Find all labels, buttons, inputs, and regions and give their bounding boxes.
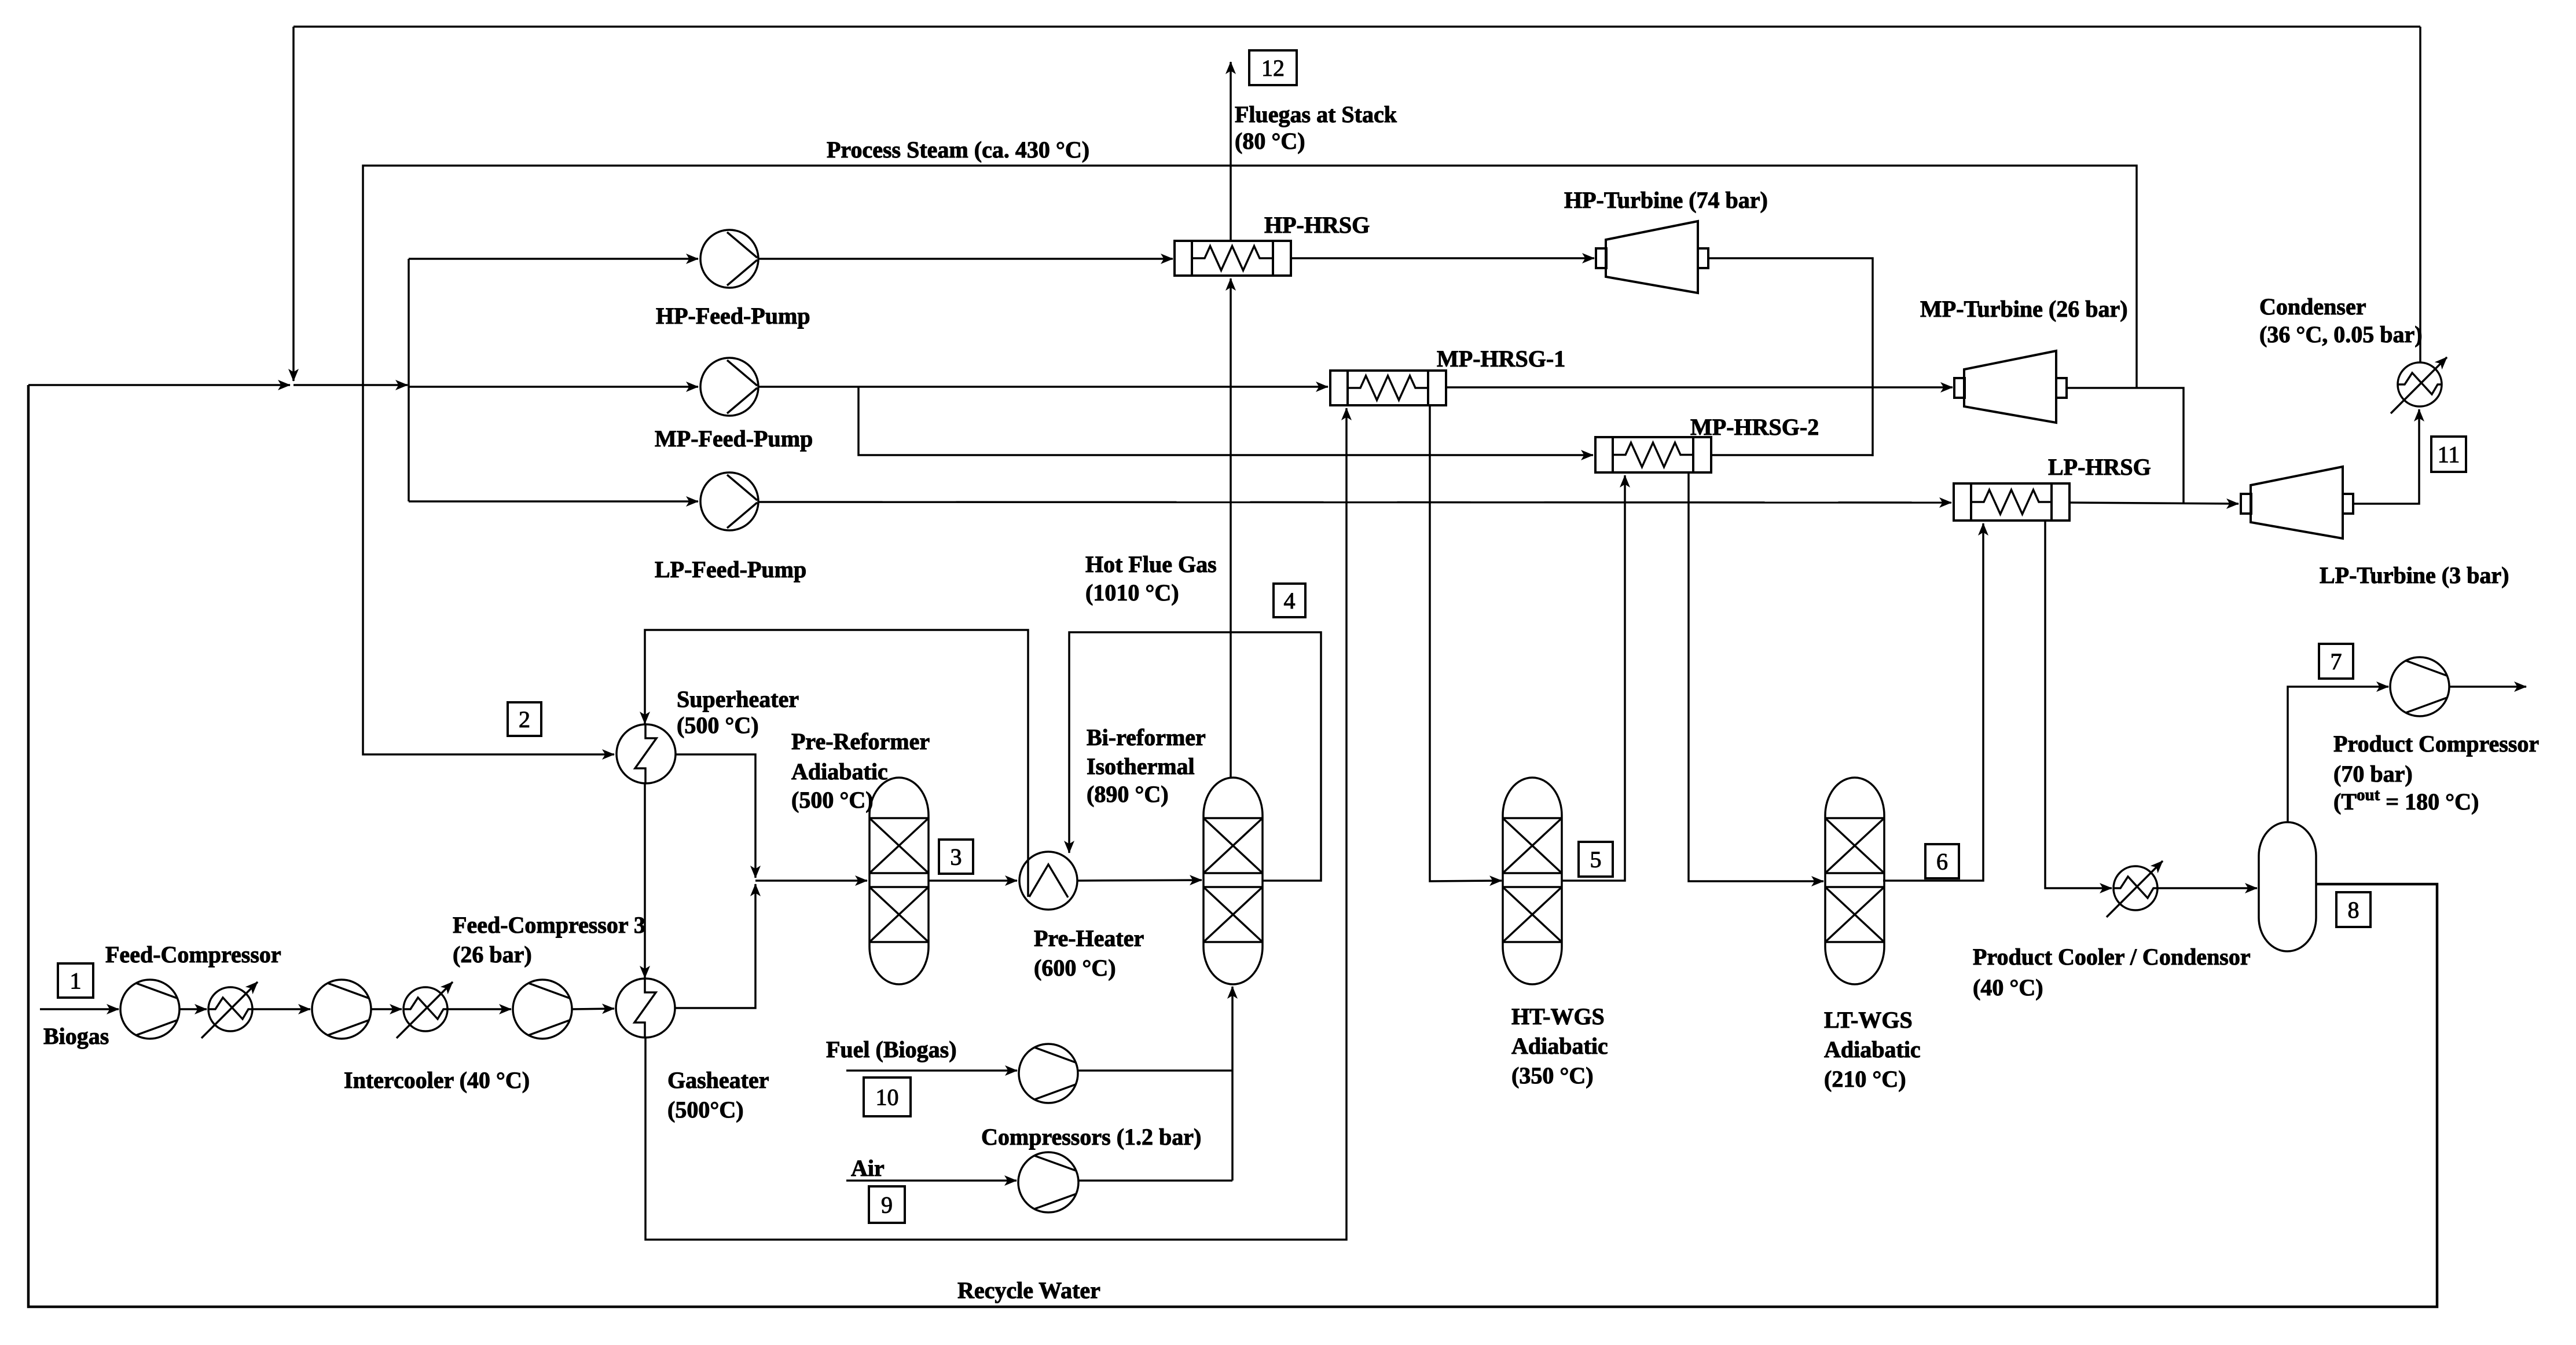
wire LP-HRSG gas out to product cooler bbox=[2045, 521, 2112, 888]
wire MP-HRSG-1 gas out to HT-WGS bbox=[1430, 405, 1502, 881]
wire burner feed riser to Bi-reformer bbox=[1231, 987, 1234, 1181]
node stream 5 bbox=[1579, 842, 1613, 877]
wire intercooler2 to compressor3 bbox=[447, 1008, 511, 1010]
wire mixed feed to Pre-Reformer bbox=[755, 879, 867, 882]
compressor Feed-Compressor-3 bbox=[513, 980, 572, 1039]
wire process steam header bbox=[363, 166, 2137, 754]
wire gasheater outlet riser bbox=[675, 884, 755, 1008]
svg-text:Biogas: Biogas bbox=[43, 1023, 109, 1049]
wire pump manifold vertical bbox=[408, 259, 410, 501]
wire condenser-top riser bbox=[2419, 27, 2421, 362]
wire superheater gas down to gasheater bbox=[644, 783, 646, 978]
svg-text:Compressors (1.2 bar): Compressors (1.2 bar) bbox=[981, 1124, 1201, 1150]
wire Pre-Reformer outlet to Pre-Heater bbox=[929, 879, 1017, 882]
svg-text:Adiabatic: Adiabatic bbox=[791, 758, 888, 785]
wire feedwater header right segment bbox=[293, 384, 408, 386]
svg-text:(350 °C): (350 °C) bbox=[1511, 1062, 1594, 1089]
wire biogas feed inlet bbox=[40, 1008, 119, 1010]
svg-text:Intercooler (40 °C): Intercooler (40 °C) bbox=[344, 1067, 530, 1093]
svg-text:(80 °C): (80 °C) bbox=[1235, 128, 1305, 154]
intercooler 2 bbox=[403, 987, 447, 1031]
svg-text:12: 12 bbox=[1261, 55, 1285, 81]
wire HP-Turbine exhaust bbox=[1709, 258, 1873, 456]
vessel product separator bbox=[2259, 822, 2316, 951]
svg-text:(500°C): (500°C) bbox=[667, 1097, 744, 1123]
svg-text:Gasheater: Gasheater bbox=[667, 1067, 769, 1093]
intercooler 1 bbox=[208, 987, 252, 1031]
node stream 8 bbox=[2336, 892, 2370, 927]
wire compressor2 to intercooler2 bbox=[371, 1008, 402, 1010]
wire Bi-reformer syngas outlet (stream 4) bbox=[1069, 632, 1321, 881]
svg-text:1: 1 bbox=[70, 968, 82, 994]
wire MP pump suction bbox=[409, 386, 698, 388]
turbine LP-Turbine bbox=[2241, 494, 2251, 514]
turbine MP-Turbine bbox=[1954, 378, 1965, 398]
svg-text:10: 10 bbox=[876, 1084, 899, 1111]
heater Gasheater bbox=[616, 978, 675, 1038]
svg-text:LP-Turbine (3 bar): LP-Turbine (3 bar) bbox=[2320, 562, 2509, 588]
heat-exchanger MP-HRSG-1 bbox=[1330, 371, 1446, 405]
wire MP pump discharge to MP-HRSG-1 bbox=[758, 386, 1328, 388]
wire MP-HRSG-2 steam outlet bbox=[1711, 454, 1873, 456]
wire LP pump suction bbox=[409, 500, 698, 503]
wire product outlet stream bbox=[2450, 686, 2526, 688]
node stream 10 bbox=[864, 1078, 911, 1116]
heat-exchanger MP-HRSG-2 bbox=[1595, 437, 1711, 472]
condenser bbox=[2398, 362, 2442, 406]
svg-text:MP-HRSG-1: MP-HRSG-1 bbox=[1437, 346, 1565, 372]
svg-text:8: 8 bbox=[2348, 897, 2360, 923]
svg-text:Isothermal: Isothermal bbox=[1087, 753, 1195, 779]
node stream 2 bbox=[508, 702, 541, 736]
svg-text:5: 5 bbox=[1590, 846, 1602, 873]
wire fuel compressor outlet bbox=[1078, 1069, 1232, 1072]
node stream 12 bbox=[1249, 50, 1297, 85]
wire HP-HRSG steam outlet bbox=[1291, 257, 1594, 259]
pump LP-Feed-Pump bbox=[700, 472, 758, 530]
wire compressor3 to gasheater bbox=[572, 1009, 614, 1009]
wire branch to MP-HRSG-2 bbox=[858, 387, 1593, 455]
svg-text:Air: Air bbox=[851, 1155, 885, 1181]
node stream 11 bbox=[2431, 437, 2466, 472]
svg-text:LP-HRSG: LP-HRSG bbox=[2048, 454, 2151, 480]
turbine HP-Turbine bbox=[1596, 248, 1606, 268]
svg-text:11: 11 bbox=[2438, 442, 2460, 468]
compressor Air-Compressor bbox=[1018, 1152, 1078, 1212]
vessel Bi-reformer bbox=[1203, 778, 1263, 984]
wire V1 recycle downcomer bbox=[292, 27, 295, 381]
svg-text:(36 °C, 0.05 bar): (36 °C, 0.05 bar) bbox=[2259, 321, 2423, 347]
wire Pre-Heater outlet to Bi-reformer bbox=[1078, 880, 1202, 881]
svg-text:(Tout = 180 °C): (Tout = 180 °C) bbox=[2333, 786, 2479, 815]
wire air compressor outlet bbox=[1078, 1179, 1232, 1182]
wire compressor1 to intercooler1 bbox=[179, 1008, 207, 1010]
wire top recycle line from condensate header bbox=[293, 25, 2420, 28]
svg-text:(500 °C): (500 °C) bbox=[791, 787, 874, 813]
cooler Product Cooler / Condensor bbox=[2113, 866, 2157, 910]
svg-text:HP-Turbine (74 bar): HP-Turbine (74 bar) bbox=[1564, 187, 1768, 213]
wire gasheater gas out bottom loop to MP-HRSG-1 bbox=[645, 408, 1346, 1240]
pump MP-Feed-Pump bbox=[700, 358, 758, 416]
compressor Fuel-Compressor bbox=[1019, 1044, 1078, 1103]
heat-exchanger HP-HRSG bbox=[1175, 241, 1291, 276]
svg-text:7: 7 bbox=[2331, 648, 2342, 675]
svg-text:Process Steam (ca. 430 °C): Process Steam (ca. 430 °C) bbox=[827, 137, 1089, 163]
svg-text:Fuel (Biogas): Fuel (Biogas) bbox=[826, 1036, 957, 1062]
svg-text:(600 °C): (600 °C) bbox=[1034, 955, 1116, 981]
svg-text:(40 °C): (40 °C) bbox=[1973, 974, 2043, 1000]
compressor Feed-Compressor-1 bbox=[120, 980, 179, 1039]
heater Superheater bbox=[617, 724, 676, 783]
svg-text:2: 2 bbox=[519, 706, 530, 732]
svg-text:9: 9 bbox=[881, 1192, 893, 1218]
wire Pre-Heater gas outlet to Superheater bbox=[645, 630, 1028, 897]
wire MP-HRSG-2 gas out to LT-WGS bbox=[1689, 472, 1823, 881]
svg-text:6: 6 bbox=[1936, 849, 1948, 875]
wire separator vapour to product compressor bbox=[2288, 687, 2388, 822]
svg-text:Adiabatic: Adiabatic bbox=[1511, 1033, 1608, 1059]
wire intercooler1 to compressor2 bbox=[252, 1008, 310, 1010]
wire air inlet bbox=[846, 1179, 1017, 1182]
svg-text:Product Cooler / Condensor: Product Cooler / Condensor bbox=[1973, 944, 2251, 970]
svg-text:(1010 °C): (1010 °C) bbox=[1085, 580, 1179, 606]
compressor Feed-Compressor-2 bbox=[312, 980, 371, 1039]
svg-text:LP-Feed-Pump: LP-Feed-Pump bbox=[655, 556, 806, 582]
svg-text:Product Compressor: Product Compressor bbox=[2333, 731, 2539, 757]
svg-text:Adiabatic: Adiabatic bbox=[1824, 1036, 1921, 1062]
svg-text:MP-Feed-Pump: MP-Feed-Pump bbox=[655, 426, 813, 452]
wire LP-HRSG steam outlet to LP-Turbine bbox=[2069, 503, 2239, 504]
svg-text:(70 bar): (70 bar) bbox=[2333, 761, 2413, 787]
node stream 6 bbox=[1925, 844, 1959, 878]
svg-text:Superheater: Superheater bbox=[677, 686, 799, 712]
svg-text:HP-HRSG: HP-HRSG bbox=[1264, 212, 1370, 238]
svg-text:HT-WGS: HT-WGS bbox=[1511, 1003, 1605, 1029]
svg-text:Pre-Reformer: Pre-Reformer bbox=[791, 728, 930, 754]
vessel LT-WGS bbox=[1825, 778, 1884, 984]
svg-text:LT-WGS: LT-WGS bbox=[1824, 1007, 1913, 1033]
wire hot flue gas riser to HP-HRSG bbox=[1230, 278, 1232, 778]
svg-text:Fluegas at Stack: Fluegas at Stack bbox=[1235, 101, 1397, 127]
pump HP-Feed-Pump bbox=[700, 230, 758, 288]
node stream 9 bbox=[869, 1186, 905, 1223]
svg-text:Recycle Water: Recycle Water bbox=[957, 1277, 1100, 1303]
node stream 1 bbox=[58, 963, 93, 998]
svg-text:(210 °C): (210 °C) bbox=[1824, 1066, 1906, 1092]
vessel HT-WGS bbox=[1503, 778, 1562, 984]
wire HP pump discharge to HP-HRSG bbox=[758, 258, 1173, 260]
wire product cooler to separator bbox=[2157, 887, 2257, 889]
compressor Product-Compressor bbox=[2390, 657, 2449, 716]
svg-text:Bi-reformer: Bi-reformer bbox=[1087, 724, 1206, 750]
svg-text:Feed-Compressor 3: Feed-Compressor 3 bbox=[453, 912, 645, 938]
svg-text:Condenser: Condenser bbox=[2259, 294, 2366, 320]
wire recycle loop left+bottom+right bbox=[28, 385, 2437, 1307]
heat-exchanger Pre-Heater bbox=[1019, 852, 1077, 910]
svg-text:(500 °C): (500 °C) bbox=[677, 712, 759, 738]
svg-text:Pre-Heater: Pre-Heater bbox=[1034, 925, 1144, 951]
node stream 7 bbox=[2319, 644, 2353, 679]
wire feedwater header left segment bbox=[28, 384, 290, 386]
svg-text:4: 4 bbox=[1284, 588, 1296, 614]
svg-text:HP-Feed-Pump: HP-Feed-Pump bbox=[656, 303, 810, 329]
svg-text:Hot Flue Gas: Hot Flue Gas bbox=[1085, 551, 1217, 577]
svg-text:(890 °C): (890 °C) bbox=[1087, 781, 1169, 807]
svg-text:MP-Turbine (26 bar): MP-Turbine (26 bar) bbox=[1920, 296, 2128, 322]
node stream 3 bbox=[939, 840, 973, 874]
wire LP pump discharge to LP-HRSG bbox=[758, 502, 1951, 503]
svg-text:MP-HRSG-2: MP-HRSG-2 bbox=[1690, 414, 1819, 440]
svg-text:Feed-Compressor: Feed-Compressor bbox=[105, 941, 281, 967]
wire fluegas stack line bbox=[1230, 62, 1232, 241]
wire superheater steam outlet downcomer bbox=[676, 754, 755, 878]
vessel Pre-Reformer bbox=[869, 778, 929, 984]
wire LT-WGS outlet riser to LP-HRSG bbox=[1883, 523, 1983, 881]
wire fuel inlet bbox=[846, 1069, 1017, 1072]
wire LP-Turbine exhaust to condenser bbox=[2354, 409, 2419, 504]
svg-text:3: 3 bbox=[951, 844, 962, 870]
wire MP-Turbine exhaust bbox=[2067, 388, 2184, 503]
node stream 4 bbox=[1274, 584, 1305, 617]
wire HP pump suction bbox=[409, 258, 698, 260]
wire HT-WGS outlet riser to MP-HRSG-2 bbox=[1561, 475, 1625, 881]
wire MP-HRSG-1 steam outlet to MP-Turbine bbox=[1446, 386, 1953, 389]
heat-exchanger LP-HRSG bbox=[1954, 483, 2069, 521]
svg-text:(26 bar): (26 bar) bbox=[453, 941, 532, 967]
